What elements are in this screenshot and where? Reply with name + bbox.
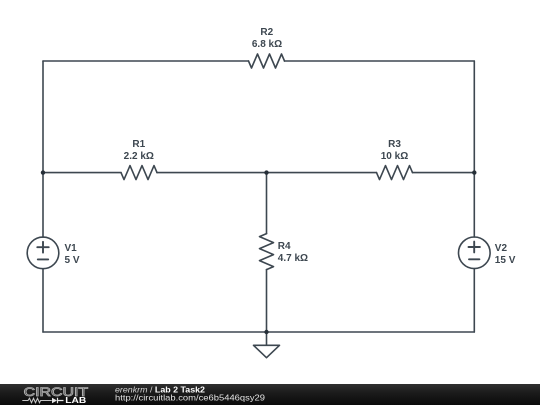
V2 plus sign <box>469 242 480 253</box>
wire middle left lead <box>43 172 121 174</box>
svg-text:5 V: 5 V <box>65 255 80 266</box>
wire ground stub <box>266 332 268 345</box>
wire right vertical upper <box>473 61 475 237</box>
wire R4 top lead <box>266 173 268 234</box>
wire middle between R1 and node B <box>157 172 267 174</box>
wire left vertical upper <box>42 61 44 237</box>
svg-text:V2: V2 <box>495 243 508 254</box>
wire bottom rail <box>43 331 474 333</box>
CircuitLab logo diode symbol <box>52 398 57 403</box>
resistor R3 body <box>377 166 413 180</box>
V1 minus sign <box>38 258 48 260</box>
V1 plus sign <box>37 242 48 253</box>
CircuitLab logo resistor zigzag <box>22 398 51 402</box>
svg-text:6.8 kΩ: 6.8 kΩ <box>252 39 282 50</box>
svg-text:R4: R4 <box>278 241 291 252</box>
node junction middle (node B) <box>264 170 268 174</box>
wire R4 bottom lead <box>266 270 268 332</box>
resistor R2 body <box>249 54 285 68</box>
svg-text:4.7 kΩ: 4.7 kΩ <box>278 253 308 264</box>
wire top right <box>285 60 475 62</box>
svg-text:LAB: LAB <box>65 396 86 405</box>
node junction right (node C) <box>472 170 476 174</box>
svg-text:R1: R1 <box>132 139 145 150</box>
svg-text:R2: R2 <box>260 27 273 38</box>
voltage source V1 circle <box>27 237 59 269</box>
svg-text:R3: R3 <box>388 139 401 150</box>
V2 minus sign <box>469 258 479 260</box>
footer black bar <box>0 384 540 405</box>
node junction left (node A) <box>41 170 45 174</box>
resistor R1 body <box>121 166 157 180</box>
wire left vertical lower <box>42 269 44 332</box>
node junction bottom (ground node) <box>264 330 268 334</box>
voltage source V2 circle <box>459 237 491 269</box>
svg-text:10 kΩ: 10 kΩ <box>381 151 408 162</box>
wire middle right lead <box>413 172 475 174</box>
svg-text:2.2 kΩ: 2.2 kΩ <box>124 151 154 162</box>
resistor R4 body (vertical) <box>260 234 274 270</box>
wire top left (node top rail) <box>43 60 249 62</box>
svg-text:15 V: 15 V <box>495 255 516 266</box>
svg-text:V1: V1 <box>65 243 78 254</box>
svg-text:http://circuitlab.com/ce6b5446: http://circuitlab.com/ce6b5446qsy29 <box>115 393 265 403</box>
wire middle between node B and R3 <box>267 172 377 174</box>
ground symbol triangle <box>254 345 280 357</box>
wire right vertical lower <box>473 269 475 332</box>
